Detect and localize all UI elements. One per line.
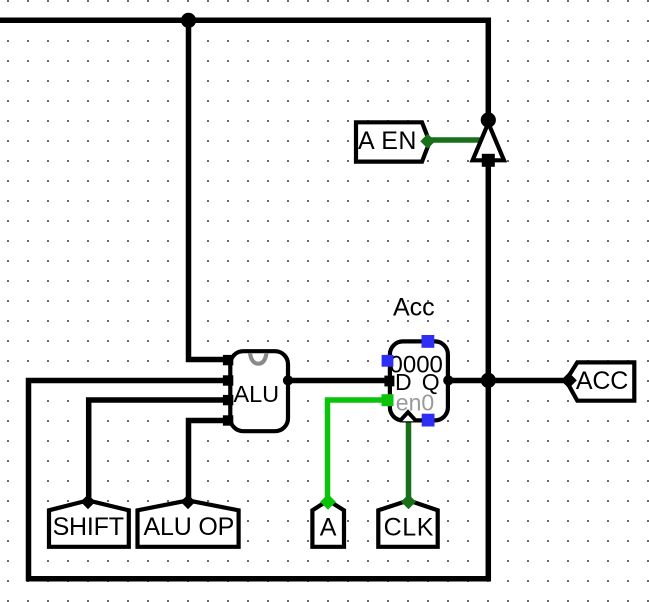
junction at (188,20): [181, 13, 196, 28]
register Q pin dot: [443, 375, 453, 385]
input tag A: [312, 500, 344, 546]
wire register Q to ACC output tag: [448, 378, 566, 384]
ALU input pin squares: [223, 355, 233, 365]
register clock triangle: [400, 412, 417, 421]
register en pin square (green, value 1): [382, 394, 394, 406]
wire vertical x=188 from top bus to ALU input A: [189, 20, 225, 359]
CLK pin diamond (dark green, value 0): [401, 494, 416, 509]
input tag CLK: [378, 500, 437, 546]
A pin diamond (bright green, value 1): [320, 494, 336, 510]
wire A EN tag to buffer enable (dark green, value 0): [428, 137, 482, 143]
register D pin square: [384, 376, 394, 387]
svg-text:ALU OP: ALU OP: [144, 513, 235, 541]
ALU notch: [250, 353, 267, 364]
register Acc body: [390, 341, 448, 420]
wire CLK input (dark green, value 0) up to register clock: [406, 418, 412, 500]
svg-text:A: A: [320, 514, 337, 542]
svg-text:SHIFT: SHIFT: [53, 513, 124, 541]
wire SHIFT input up and right to ALU input: [89, 400, 224, 500]
wire A input (bright green, value 1) up to register en: [328, 400, 388, 500]
tri-state buffer U1 (points up): [473, 123, 504, 160]
SHIFT pin diamond: [81, 494, 96, 509]
input tag A EN: [356, 122, 430, 161]
A EN pin diamond (dark green, value 0): [420, 134, 435, 149]
input tag ALU OP: [138, 500, 239, 546]
svg-text:ALU: ALU: [233, 381, 279, 407]
output tag ACC: [566, 362, 634, 400]
ALU OP pin diamond: [181, 494, 196, 509]
svg-text:en0: en0: [396, 390, 434, 416]
svg-text:A EN: A EN: [358, 127, 417, 155]
wire from buffer input down right side, bottom border, left border, to ALU input B: [29, 160, 489, 579]
wire ALU OP input up and right to ALU input: [189, 421, 225, 501]
register floating pin marker bottom (blue): [422, 414, 435, 427]
input tag SHIFT: [49, 500, 129, 546]
ALU output pin dot: [283, 375, 293, 385]
buffer input pin square: [482, 154, 495, 167]
svg-text:Acc: Acc: [393, 293, 435, 321]
svg-text:CLK: CLK: [384, 514, 434, 542]
junction at buffer output (488,120): [481, 112, 496, 127]
ACC pin diamond: [561, 372, 577, 388]
junction at (488,380): [481, 373, 496, 388]
ALU body: [230, 351, 288, 431]
register floating pin marker top (blue): [422, 335, 435, 348]
wire ALU output to register D: [288, 378, 388, 384]
svg-text:ACC: ACC: [576, 367, 628, 395]
register floating pin marker left (blue): [382, 355, 394, 367]
wire top bus y=20 from left edge to x=488 then down to buffer output: [0, 20, 488, 117]
